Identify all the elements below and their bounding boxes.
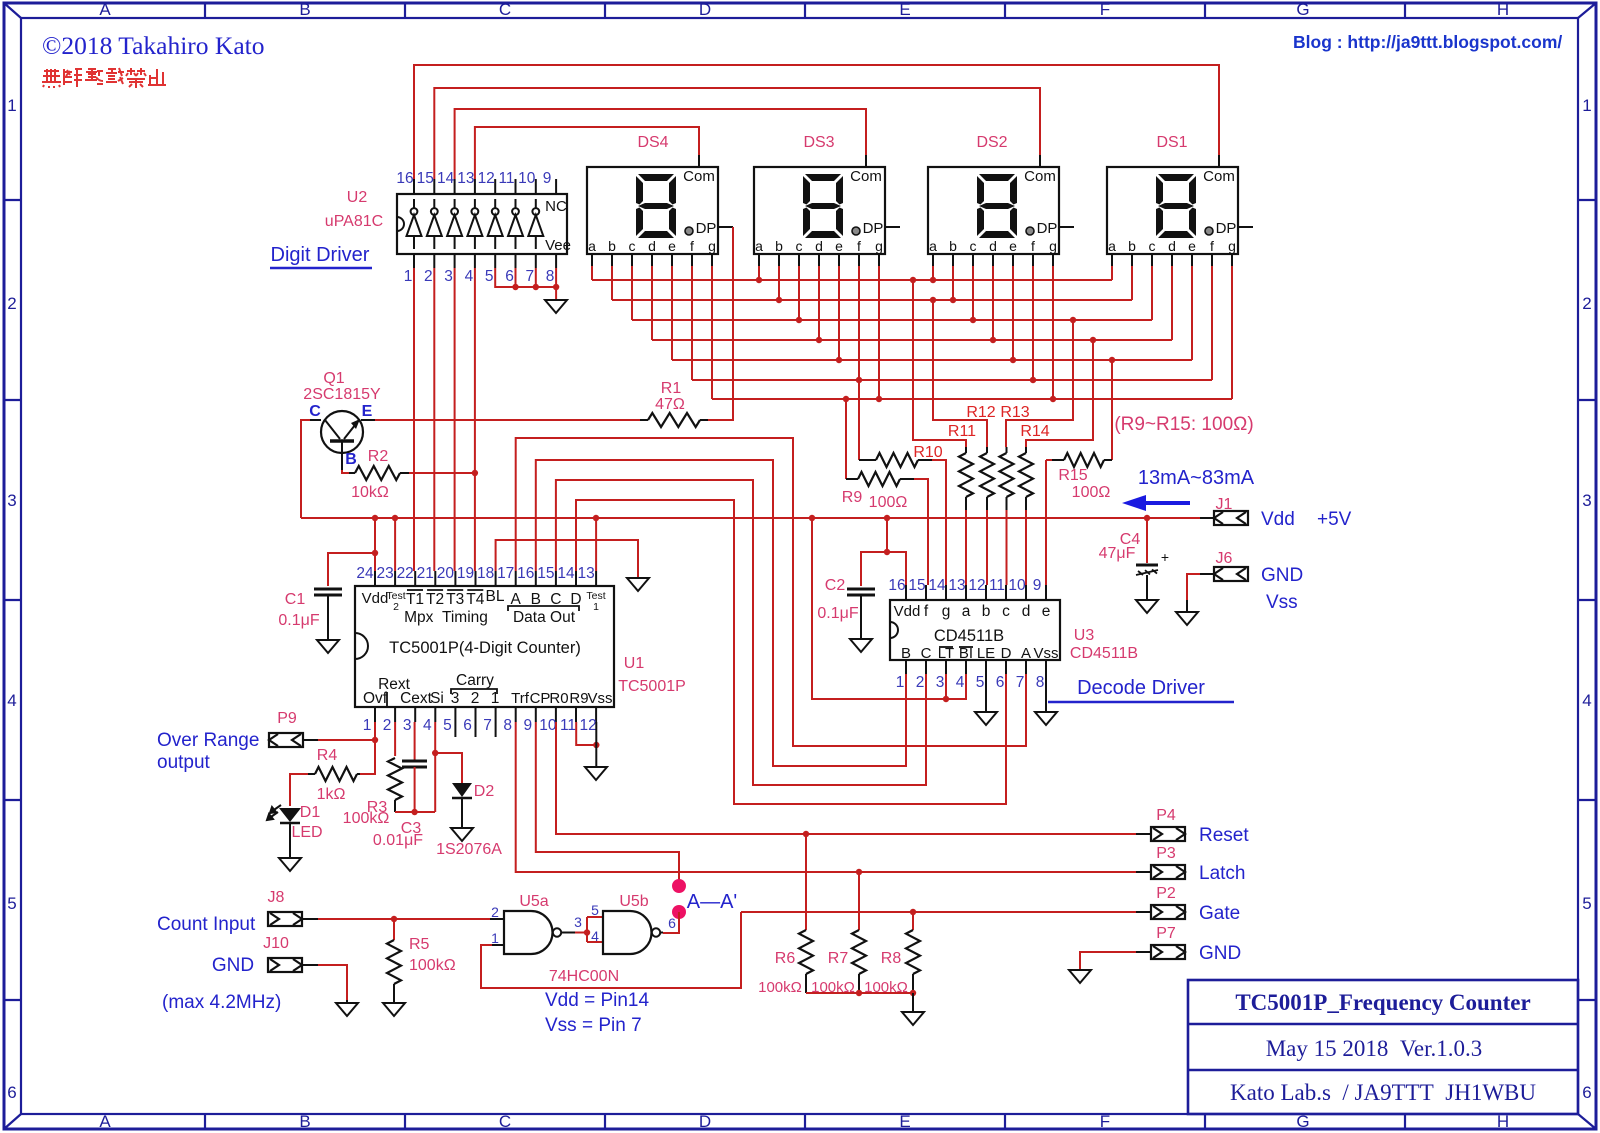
svg-text:b: b <box>608 238 616 254</box>
svg-text:P4: P4 <box>1156 807 1176 824</box>
svg-text:12: 12 <box>478 170 495 187</box>
svg-text:e: e <box>1042 603 1051 620</box>
ground below C4 <box>1136 600 1158 613</box>
svg-text:DS4: DS4 <box>637 134 668 151</box>
wire U2 pin15 to DS2 Com <box>434 88 1040 179</box>
svg-text:f: f <box>924 603 929 620</box>
svg-text:b: b <box>982 603 991 620</box>
svg-text:2SC1815Y: 2SC1815Y <box>303 386 381 403</box>
svg-text:Blog : http://ja9ttt.blogspot.: Blog : http://ja9ttt.blogspot.com/ <box>1293 32 1562 52</box>
ground below D2 <box>451 828 473 841</box>
svg-text:a: a <box>962 603 971 620</box>
svg-text:47Ω: 47Ω <box>655 396 685 413</box>
capacitor C3 <box>402 760 427 763</box>
svg-text:Vdd = Pin14: Vdd = Pin14 <box>545 990 649 1011</box>
svg-text:1: 1 <box>1582 96 1591 115</box>
svg-text:C: C <box>499 0 511 19</box>
wire net C U1 pin15 to U3 pin2 <box>556 480 926 785</box>
wire P9 to U1 pin1 Ovf <box>318 739 375 741</box>
capacitor C2 <box>847 588 875 591</box>
svg-text:10: 10 <box>539 717 557 734</box>
svg-text:8: 8 <box>546 268 555 285</box>
connector P9 over range <box>269 733 303 747</box>
resistor R6 100k <box>805 834 807 930</box>
svg-text:A: A <box>1021 645 1031 662</box>
svg-text:P3: P3 <box>1156 845 1176 862</box>
svg-text:R12: R12 <box>966 404 995 421</box>
svg-text:TC5001P_Frequency Counter: TC5001P_Frequency Counter <box>1235 990 1530 1015</box>
svg-text:a: a <box>588 238 596 254</box>
svg-text:B: B <box>345 451 357 468</box>
ic U2 uPA81C digit driver box <box>397 194 567 254</box>
wire net A U1 pin17 to U3 pin7 <box>516 438 1026 746</box>
display DS2 7-segment <box>928 155 1074 266</box>
svg-text:NC: NC <box>545 198 567 215</box>
ground U3 pin5 LE <box>985 660 987 712</box>
svg-text:22: 22 <box>397 565 414 582</box>
svg-text:3: 3 <box>7 491 16 510</box>
svg-text:Gate: Gate <box>1199 903 1240 924</box>
svg-text:0.1μF: 0.1μF <box>817 605 858 622</box>
wire U2 pins1-4 to U1 T1-T4 <box>413 268 415 571</box>
svg-text:R13: R13 <box>1000 404 1029 421</box>
svg-text:Over Range: Over Range <box>157 730 259 751</box>
svg-text:2: 2 <box>471 690 480 707</box>
svg-text:LE: LE <box>977 645 995 662</box>
node A <box>672 879 686 893</box>
node A-prime <box>672 905 686 919</box>
resistor R2 10k <box>342 470 349 473</box>
ground below D1 <box>279 858 301 871</box>
resistor R11 <box>959 453 973 497</box>
resistor R14 <box>1019 453 1033 497</box>
wire J6 to ground <box>1187 574 1200 600</box>
connector J1 <box>1200 517 1214 519</box>
connector J8 <box>268 912 302 926</box>
svg-text:a: a <box>1108 238 1116 254</box>
wire R1 to DS4 DP <box>708 227 733 420</box>
svg-text:e: e <box>1188 238 1196 254</box>
svg-text:1S2076A: 1S2076A <box>436 841 502 858</box>
svg-text:B: B <box>901 645 911 662</box>
svg-text:6: 6 <box>7 1083 16 1102</box>
svg-text:C: C <box>309 403 321 420</box>
svg-text:R9: R9 <box>569 690 588 707</box>
svg-text:d: d <box>1168 238 1176 254</box>
svg-text:DS3: DS3 <box>803 134 834 151</box>
svg-text:D2: D2 <box>474 783 495 800</box>
resistor R9 100ohm <box>846 478 858 480</box>
svg-text:T4: T4 <box>466 591 484 608</box>
svg-text:F: F <box>1100 1112 1110 1131</box>
svg-text:16: 16 <box>517 565 534 582</box>
svg-text:Com: Com <box>1024 168 1056 185</box>
ic U1 TC5001P box <box>355 586 614 707</box>
svg-text:Decode Driver: Decode Driver <box>1077 677 1205 699</box>
svg-text:R15: R15 <box>1058 467 1087 484</box>
svg-text:16: 16 <box>396 170 413 187</box>
svg-text:Digit Driver: Digit Driver <box>271 244 370 266</box>
ground below J6 <box>1176 612 1198 625</box>
svg-text:A: A <box>99 0 111 19</box>
svg-text:Kato Lab.s / JA9TTT JH1WBU: Kato Lab.s / JA9TTT JH1WBU <box>1230 1080 1536 1105</box>
svg-text:A—A': A—A' <box>687 891 738 913</box>
wire U5a output to U5b inputs <box>575 932 587 934</box>
segment bus junction dots <box>756 277 762 283</box>
svg-text:C: C <box>499 1112 511 1131</box>
svg-text:CD4511B: CD4511B <box>1070 645 1138 662</box>
wire R3 bottom tie <box>395 811 435 813</box>
svg-text:e: e <box>668 238 676 254</box>
svg-text:13: 13 <box>457 170 474 187</box>
svg-text:1: 1 <box>896 674 905 691</box>
wire row e feed to R15 <box>1111 360 1113 460</box>
svg-text:P9: P9 <box>277 710 297 727</box>
svg-text:6: 6 <box>463 717 472 734</box>
connector J10 <box>268 958 302 972</box>
svg-text:E: E <box>362 403 373 420</box>
wire U1 pin23 to Vdd rail <box>394 518 396 571</box>
svg-text:20: 20 <box>437 565 455 582</box>
svg-text:6: 6 <box>996 674 1005 691</box>
wire row g feed to R9 <box>845 399 847 479</box>
U1 pin stubs <box>375 571 596 737</box>
svg-text:Com: Com <box>683 168 715 185</box>
bracket Data Out <box>508 606 579 611</box>
svg-text:CD4511B: CD4511B <box>934 627 1004 645</box>
svg-text:23: 23 <box>376 565 393 582</box>
svg-text:100Ω: 100Ω <box>1072 484 1111 501</box>
svg-text:GND: GND <box>1261 565 1303 586</box>
svg-text:a: a <box>929 238 937 254</box>
svg-text:15: 15 <box>417 170 434 187</box>
wire segment bus row c <box>632 319 1152 321</box>
svg-text:Com: Com <box>850 168 882 185</box>
svg-text:+: + <box>1161 549 1169 565</box>
svg-text:1: 1 <box>593 601 599 613</box>
svg-text:11: 11 <box>989 577 1005 594</box>
svg-text:10: 10 <box>518 170 536 187</box>
ground below U1 Vss <box>585 767 607 780</box>
current arrow blue <box>1143 501 1190 505</box>
svg-text:2: 2 <box>491 904 499 920</box>
svg-text:14: 14 <box>557 565 575 582</box>
diode D2 1S2076A <box>452 783 472 797</box>
svg-text:74HC00N: 74HC00N <box>549 968 619 985</box>
svg-text:DP: DP <box>696 220 717 237</box>
svg-text:H: H <box>1497 0 1509 19</box>
display DS3 7-segment <box>754 155 900 266</box>
svg-text:0.1μF: 0.1μF <box>278 612 319 629</box>
svg-text:47μF: 47μF <box>1099 545 1136 562</box>
svg-text:B: B <box>299 0 310 19</box>
wire CP net U1 pin9 to node A <box>536 722 679 884</box>
ground below U2 pin8 <box>545 300 567 313</box>
svg-text:+5V: +5V <box>1317 509 1352 530</box>
svg-text:d: d <box>989 238 997 254</box>
ground below C1 <box>317 640 339 653</box>
svg-text:8: 8 <box>1036 674 1045 691</box>
svg-text:Vdd: Vdd <box>894 603 921 620</box>
wire net D U1 pin14 to U3 pin6 <box>576 500 1006 804</box>
svg-text:3: 3 <box>403 717 412 734</box>
svg-text:P2: P2 <box>1156 885 1176 902</box>
svg-text:R7: R7 <box>828 950 849 967</box>
svg-text:R4: R4 <box>317 747 338 764</box>
ground for BL <box>627 578 649 591</box>
wire row a feed to R11 <box>913 280 966 447</box>
ic U3 CD4511B box <box>890 600 1060 660</box>
svg-text:A: A <box>99 1112 111 1131</box>
svg-text:c: c <box>970 238 977 254</box>
svg-text:0.01μF: 0.01μF <box>373 832 423 849</box>
svg-text:c: c <box>1149 238 1156 254</box>
resistor R4 1k <box>315 767 357 781</box>
wire BL U1 pin18 to ground <box>496 540 638 578</box>
svg-text:10kΩ: 10kΩ <box>351 484 389 501</box>
svg-text:1: 1 <box>404 268 413 285</box>
svg-text:17: 17 <box>497 565 514 582</box>
svg-text:3: 3 <box>936 674 945 691</box>
wire Si to D2 <box>435 753 462 783</box>
wire J8 to U5a pin2 <box>318 918 490 920</box>
svg-text:Latch: Latch <box>1199 863 1245 884</box>
U2 internal driver symbols <box>407 199 544 249</box>
svg-text:T2: T2 <box>426 591 444 608</box>
svg-text:9: 9 <box>523 717 532 734</box>
svg-text:13: 13 <box>948 577 965 594</box>
svg-text:e: e <box>1009 238 1017 254</box>
svg-text:21: 21 <box>417 565 434 582</box>
diode D1 LED <box>279 808 301 822</box>
svg-text:output: output <box>157 752 211 773</box>
svg-text:6: 6 <box>1582 1083 1591 1102</box>
svg-text:3: 3 <box>1582 491 1591 510</box>
wire Vdd rail +5V <box>301 517 1200 519</box>
wire net B U1 pin16 to U3 pin1 <box>536 460 906 766</box>
resistor R12 <box>980 453 994 497</box>
svg-text:1: 1 <box>491 930 499 946</box>
svg-text:100kΩ: 100kΩ <box>864 979 908 996</box>
svg-text:7: 7 <box>1016 674 1025 691</box>
wire Gate net to P2 <box>741 911 1136 913</box>
wire row b feed to R12 <box>933 300 987 447</box>
svg-text:4: 4 <box>7 691 16 710</box>
svg-text:4: 4 <box>591 928 599 944</box>
svg-text:Data Out: Data Out <box>513 609 576 626</box>
resistor R1 47ohm <box>640 419 648 421</box>
svg-text:E: E <box>899 0 910 19</box>
svg-text:LED: LED <box>291 824 322 841</box>
svg-text:24: 24 <box>356 565 374 582</box>
svg-text:c: c <box>796 238 803 254</box>
svg-text:2: 2 <box>393 601 399 613</box>
svg-text:1: 1 <box>363 717 372 734</box>
svg-text:B: B <box>299 1112 310 1131</box>
svg-text:U5a: U5a <box>519 893 548 910</box>
ground U3 pin8 Vss <box>1045 660 1047 712</box>
svg-text:b: b <box>775 238 783 254</box>
svg-text:D1: D1 <box>300 804 321 821</box>
connector P4 <box>1136 833 1151 835</box>
svg-text:DS1: DS1 <box>1156 134 1187 151</box>
svg-text:J1: J1 <box>1216 496 1233 513</box>
svg-text:F: F <box>1100 0 1110 19</box>
svg-text:1: 1 <box>7 96 16 115</box>
svg-text:E: E <box>899 1112 910 1131</box>
svg-text:Ovf: Ovf <box>363 690 388 707</box>
svg-text:18: 18 <box>477 565 494 582</box>
svg-text:R0: R0 <box>549 690 568 707</box>
wire U1 pin2 to R3 <box>394 722 396 756</box>
wire row f feed to R10 <box>858 380 860 460</box>
svg-text:5: 5 <box>976 674 985 691</box>
svg-text:c: c <box>629 238 636 254</box>
wire U2 pin14 to DS3 Com <box>455 109 866 179</box>
svg-text:R1: R1 <box>661 380 682 397</box>
wire Latch net U1 pin8 to P3 <box>516 722 1136 872</box>
svg-text:3: 3 <box>444 268 453 285</box>
svg-text:100kΩ: 100kΩ <box>409 957 456 974</box>
ground below C2 <box>850 639 872 652</box>
connector P3 <box>1136 871 1151 873</box>
ground below R8 <box>902 1012 924 1025</box>
wire segment bus row e <box>672 359 1192 361</box>
svg-text:2: 2 <box>916 674 925 691</box>
wire node A-prime to U5b output <box>663 912 679 933</box>
svg-text:Vdd: Vdd <box>1261 509 1295 530</box>
wire segment bus row f <box>692 379 1212 381</box>
svg-text:12: 12 <box>579 717 596 734</box>
svg-text:2: 2 <box>7 294 16 313</box>
capacitor C1 <box>314 588 342 591</box>
svg-text:g: g <box>1228 238 1236 254</box>
svg-text:9: 9 <box>543 170 552 187</box>
svg-text:Trf: Trf <box>511 690 530 707</box>
connector J6 <box>1214 567 1248 581</box>
svg-text:(R9~R15: 100Ω): (R9~R15: 100Ω) <box>1114 414 1253 435</box>
nand gate U5b <box>603 911 652 954</box>
svg-text:5: 5 <box>443 717 452 734</box>
svg-text:b: b <box>1128 238 1136 254</box>
svg-text:10: 10 <box>1008 577 1026 594</box>
svg-text:uPA81C: uPA81C <box>325 213 383 230</box>
wire U1 pin11 R9 to Vss <box>576 722 596 745</box>
wire U2 pins 5,6,7 tie to pin8 ground <box>495 268 556 287</box>
wire U2 pin13 to DS4 Com <box>475 127 699 179</box>
svg-text:1kΩ: 1kΩ <box>317 786 346 803</box>
wire J10 to ground <box>318 965 347 1000</box>
svg-text:©2018 Takahiro Kato: ©2018 Takahiro Kato <box>42 31 265 60</box>
svg-text:Count Input: Count Input <box>157 914 256 935</box>
svg-text:Mpx Timing: Mpx Timing <box>404 609 488 626</box>
svg-text:U5b: U5b <box>619 893 648 910</box>
svg-text:e: e <box>835 238 843 254</box>
svg-text:R10: R10 <box>913 444 942 461</box>
svg-text:Vss = Pin 7: Vss = Pin 7 <box>545 1015 642 1036</box>
svg-text:Si: Si <box>430 690 444 707</box>
wire R2 to T4 line <box>409 472 475 474</box>
svg-text:5: 5 <box>591 902 599 918</box>
wire U1 pin4 Si junction <box>434 722 436 753</box>
svg-text:T3: T3 <box>446 591 464 608</box>
svg-text:BL: BL <box>486 588 505 605</box>
wire U5a pin1 feedback to Gate net <box>481 912 741 988</box>
svg-text:Vss: Vss <box>587 690 612 707</box>
capacitor C4 47uF <box>1146 518 1148 563</box>
svg-text:(max 4.2MHz): (max 4.2MHz) <box>162 992 281 1013</box>
svg-text:a: a <box>755 238 763 254</box>
svg-text:d: d <box>648 238 656 254</box>
svg-text:R14: R14 <box>1020 423 1049 440</box>
connector P7 <box>1136 951 1151 953</box>
wire segment bus row b <box>612 299 1132 301</box>
svg-text:J8: J8 <box>268 889 285 906</box>
svg-text:Cext: Cext <box>400 690 433 707</box>
wire Q1 collector to Vdd rail <box>301 420 310 518</box>
svg-text:d: d <box>815 238 823 254</box>
svg-text:Carry: Carry <box>456 672 494 689</box>
svg-text:U1: U1 <box>624 655 645 672</box>
svg-text:13: 13 <box>577 565 594 582</box>
U2 pin stubs and numbers <box>414 179 556 268</box>
nand gate U5a <box>504 911 553 954</box>
wire U3 LT BI tie to Vdd <box>945 674 947 699</box>
svg-text:g: g <box>1049 238 1057 254</box>
svg-text:D: D <box>699 0 711 19</box>
svg-text:2: 2 <box>383 717 392 734</box>
svg-text:9: 9 <box>1033 577 1042 594</box>
wire segment bus row d <box>652 339 1172 341</box>
svg-text:J6: J6 <box>1216 550 1233 567</box>
ground below J10 <box>336 1003 358 1016</box>
U3 pin stubs <box>906 585 1046 674</box>
svg-text:T1: T1 <box>406 591 424 608</box>
svg-text:15: 15 <box>537 565 554 582</box>
connector P2 <box>1136 911 1151 913</box>
svg-text:100kΩ: 100kΩ <box>343 810 390 827</box>
wire U1 pin13 Test1 to Vdd rail <box>595 518 597 571</box>
svg-text:100Ω: 100Ω <box>869 494 908 511</box>
svg-text:c: c <box>1002 603 1010 620</box>
svg-text:1: 1 <box>491 690 500 707</box>
resistor R3 100k <box>388 758 402 800</box>
svg-text:f: f <box>857 238 861 254</box>
wire Q1 emitter to R1 <box>375 419 640 421</box>
svg-text:7: 7 <box>483 717 492 734</box>
svg-text:C2: C2 <box>825 577 846 594</box>
svg-text:P7: P7 <box>1156 925 1176 942</box>
wire row d feed to R14 <box>1026 340 1093 447</box>
svg-text:Vee: Vee <box>545 237 571 254</box>
svg-text:Vss: Vss <box>1266 592 1298 613</box>
wire segment bus row g <box>712 398 1232 400</box>
svg-text:3: 3 <box>574 914 582 930</box>
svg-text:CP: CP <box>530 690 551 707</box>
wire U1 pin3 to C3 <box>414 722 416 760</box>
svg-text:Q1: Q1 <box>323 370 344 387</box>
svg-text:R9: R9 <box>842 489 863 506</box>
wire Vdd to C1 and U1 pin24 <box>374 518 376 571</box>
svg-text:13mA~83mA: 13mA~83mA <box>1138 467 1255 489</box>
svg-text:14: 14 <box>928 577 946 594</box>
svg-text:d: d <box>1022 603 1031 620</box>
svg-text:g: g <box>942 603 951 620</box>
svg-text:11: 11 <box>560 717 576 734</box>
svg-text:11: 11 <box>498 170 514 187</box>
svg-text:16: 16 <box>888 577 905 594</box>
wire U2 pin16 to DS1 Com <box>414 65 1219 179</box>
